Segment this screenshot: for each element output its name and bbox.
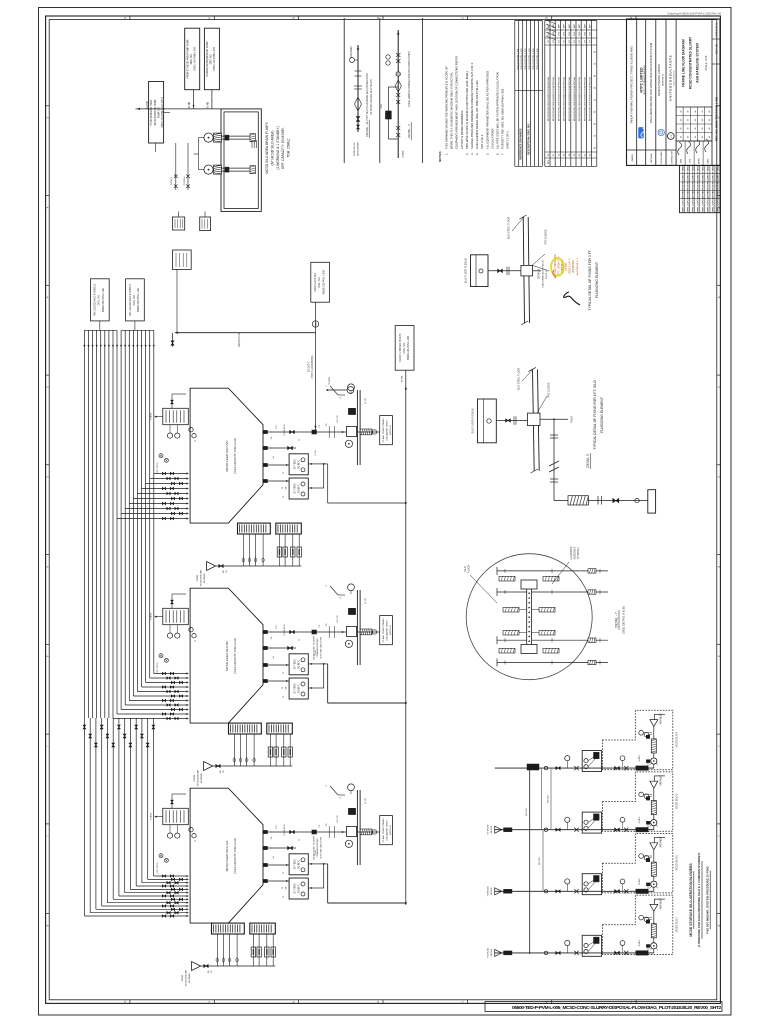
svg-text:C: C: [460, 1001, 464, 1003]
svg-text:BC-150: BC-150: [539, 857, 541, 865]
svg-text:RF 300: RF 300: [365, 598, 367, 604]
svg-text:50: 50: [282, 687, 284, 689]
svg-text:TO MCSD: TO MCSD: [488, 824, 490, 834]
svg-text:SILO FLOOR PLENUM: SILO FLOOR PLENUM: [472, 409, 475, 434]
svg-text:50: 50: [283, 472, 285, 474]
svg-text:FLUIDIZING ELEMENT: FLUIDIZING ELEMENT: [600, 397, 604, 433]
svg-text:FLUIDIZING ELEMENT: FLUIDIZING ELEMENT: [595, 262, 599, 298]
svg-text:BC-150: BC-150: [548, 795, 550, 803]
svg-text:REVISION RECORD ISSUED FOR APP: REVISION RECORD ISSUED FOR APPROVAL: [578, 76, 581, 121]
svg-text:MCSD FEED SILO A/C: MCSD FEED SILO A/C: [225, 440, 229, 472]
svg-text:APP: APP: [557, 23, 560, 28]
svg-text:50 NPS: 50 NPS: [639, 754, 641, 761]
svg-text:AIR INLET: AIR INLET: [660, 836, 663, 848]
svg-text:REVISION RECORD ISSUED FOR APP: REVISION RECORD ISSUED FOR APPROVAL: [563, 76, 566, 121]
svg-text:PUMP. NO.: PUMP. NO.: [158, 106, 160, 118]
svg-text:(SEE DETAIL A & B): (SEE DETAIL A & B): [622, 606, 626, 633]
svg-text:MAIN S-XXX AIR: MAIN S-XXX AIR: [314, 273, 317, 292]
svg-text:BC-200: BC-200: [526, 808, 528, 816]
svg-text:TO ATM: TO ATM: [328, 377, 331, 385]
svg-text:CHD: CHD: [579, 31, 581, 36]
svg-text:80 NB: 80 NB: [207, 101, 209, 108]
svg-text:NEW DELHI: NEW DELHI: [663, 74, 665, 87]
svg-text:50 NB (FF3): 50 NB (FF3): [284, 624, 286, 635]
svg-text:A: A: [629, 17, 633, 19]
svg-text:50 NPS: 50 NPS: [639, 878, 641, 885]
svg-text:80 NB: 80 NB: [189, 101, 191, 108]
svg-text:APPD: APPD: [698, 158, 701, 164]
svg-text:AS-BF-C: AS-BF-C: [297, 884, 300, 894]
svg-text:TANDA THERMAL POWER PROJECT, S: TANDA THERMAL POWER PROJECT, STAGE-II (2…: [630, 46, 634, 124]
svg-text:(SEAL WATER CONNECTION TO DRAI: (SEAL WATER CONNECTION TO DRAIN PUMP): [408, 51, 411, 107]
svg-text:SILO INLET: SILO INLET: [351, 45, 353, 58]
svg-text:PVC SLEEVE: PVC SLEEVE: [545, 229, 548, 244]
svg-text:FROM: FROM: [182, 975, 184, 982]
svg-text:FROM: FROM: [194, 775, 196, 782]
svg-text:TO DET-7: TO DET-7: [308, 361, 311, 372]
svg-text:TO MCSD: TO MCSD: [488, 886, 490, 896]
svg-text:MCSD CONC. SLURRY: MCSD CONC. SLURRY: [314, 635, 316, 659]
svg-text:WORK. THIS IS A SCHEMATIC DIAG: WORK. THIS IS A SCHEMATIC DIAGRAM ONLY, …: [450, 71, 454, 149]
svg-text:APP: APP: [578, 23, 581, 28]
svg-text:PIPE WISE SCOPE IS MARKED (FOR: PIPE WISE SCOPE IS MARKED (FOR NTPC AND …: [465, 70, 469, 149]
svg-text:TO ATM: TO ATM: [150, 813, 153, 821]
svg-text:50 NB (FF3): 50 NB (FF3): [284, 824, 286, 835]
svg-text:DETAIL - 11: DETAIL - 11: [365, 121, 369, 136]
svg-text:MCSD SILO-2: MCSD SILO-2: [675, 855, 678, 871]
svg-text:REV. 00: REV. 00: [715, 44, 719, 54]
svg-text:DRG. NO.: DRG. NO.: [318, 277, 321, 288]
svg-text:APP: APP: [573, 23, 576, 28]
svg-text:E: E: [292, 1000, 296, 1002]
svg-text:DESEIN PRIVATE LIMITED: DESEIN PRIVATE LIMITED: [657, 64, 661, 96]
svg-text:A0: A0: [687, 136, 690, 138]
svg-text:DRG. NO. 05600-TED-P-PVM-L-00: DRG. NO. 05600-TED-P-PVM-L-005: [715, 96, 719, 141]
svg-text:C: C: [460, 17, 464, 19]
svg-text:AIR INLET: AIR INLET: [660, 897, 663, 909]
svg-text:MCSD SILO-3: MCSD SILO-3: [675, 793, 678, 809]
svg-text:(NOTE-2): (NOTE-2): [390, 825, 392, 835]
svg-text:5.: 5.: [485, 153, 489, 155]
svg-text:(TYP. 3 PTS.): (TYP. 3 PTS.): [157, 662, 159, 674]
svg-text:(TYP. 3 PTS.): (TYP. 3 PTS.): [157, 462, 159, 474]
svg-text:DETAIL 3: DETAIL 3: [586, 454, 590, 468]
svg-text:A0: A0: [687, 110, 690, 112]
svg-text:EFF. CAPACITY: 80 M3/HR.: EFF. CAPACITY: 80 M3/HR.: [281, 127, 285, 168]
svg-text:(TYP. 3 LOCATIONS): (TYP. 3 LOCATIONS): [311, 355, 314, 378]
svg-text:DRG. NO.: DRG. NO.: [191, 53, 193, 64]
svg-text:SCALE : NTS: SCALE : NTS: [705, 55, 708, 70]
svg-text:(1 WORKING FOR EACH WORKING SI: (1 WORKING FOR EACH WORKING SILO & 1 COM…: [697, 853, 701, 948]
svg-text:APP: APP: [583, 23, 586, 28]
svg-text:D: D: [376, 1001, 380, 1003]
svg-text:UNLOADING SPOUT: UNLOADING SPOUT: [386, 419, 389, 441]
svg-text:FOR DET-7 REF. DRG. NO. 0560-1: FOR DET-7 REF. DRG. NO. 0560-103-PVM-L-0…: [501, 88, 505, 149]
svg-text:TRANSFER PUMP: TRANSFER PUMP: [316, 838, 319, 857]
svg-text:TO ASH CONDITIONER /: TO ASH CONDITIONER /: [382, 417, 385, 443]
svg-text:REVISION RECORD ISSUED FOR APP: REVISION RECORD ISSUED FOR APPROVAL: [552, 76, 555, 121]
svg-text:UNLOADING SPOUT: UNLOADING SPOUT: [386, 819, 389, 841]
svg-text:CHD: CHD: [690, 158, 692, 163]
svg-text:ALL EQUIPMENT PARAMETER SHALL: ALL EQUIPMENT PARAMETER SHALL BE AS PER …: [485, 71, 489, 149]
svg-text:DISTRIBUTION RECORD OF DRGS: DISTRIBUTION RECORD OF DRGS: [713, 164, 715, 199]
svg-text:BLOWER: BLOWER: [189, 973, 191, 983]
svg-text:A0: A0: [708, 110, 711, 112]
svg-text:(A GOVT. OF INDIA ENTERPRISE): (A GOVT. OF INDIA ENTERPRISE): [643, 65, 646, 95]
svg-text:UNLOADING SPOUT: UNLOADING SPOUT: [386, 619, 389, 641]
svg-text:P&I LEGEND AND SYMBOLS: P&I LEGEND AND SYMBOLS: [129, 283, 132, 316]
svg-text:KGV 300: KGV 300: [337, 415, 339, 422]
svg-text:FLUIDIZING AIR: FLUIDIZING AIR: [196, 769, 199, 786]
svg-text:7.: 7.: [501, 153, 505, 155]
svg-text:A0: A0: [701, 127, 704, 129]
svg-text:25 NB: 25 NB: [315, 450, 317, 456]
svg-text:A0: A0: [679, 136, 682, 138]
svg-text:SHEET 2 OF 2.: SHEET 2 OF 2.: [506, 130, 510, 149]
svg-text:(SILO CAPACITY: 1500 Cu.M): (SILO CAPACITY: 1500 Cu.M): [233, 438, 237, 473]
svg-text:0560-103-PVM-L-006: 0560-103-PVM-L-006: [537, 48, 539, 70]
svg-text:BHEL-UCPL: BHEL-UCPL: [718, 199, 720, 212]
svg-text:0560-103-PVM-L-004: 0560-103-PVM-L-004: [529, 48, 531, 70]
svg-text:0560-103-PVM-L-001: 0560-103-PVM-L-001: [517, 48, 519, 70]
svg-text:TDH: 25MLC: TDH: 25MLC: [287, 138, 291, 158]
svg-text:TO ATM: TO ATM: [150, 613, 153, 621]
svg-text:ALL PIPE SIZES WILL BE AS PER: ALL PIPE SIZES WILL BE AS PER APPROVED C…: [496, 71, 500, 149]
svg-text:(1 WORKING & 1 STANDBY): (1 WORKING & 1 STANDBY): [276, 126, 280, 169]
svg-text:05600-103-PVM-L-004: 05600-103-PVM-L-004: [407, 335, 410, 360]
svg-text:TO HCSD MIXING TANK /: TO HCSD MIXING TANK /: [150, 98, 153, 125]
svg-text:BLOWER: BLOWER: [201, 773, 203, 783]
svg-text:05600-103-PVM-L-003 SHT 2: 05600-103-PVM-L-003 SHT 2: [162, 96, 164, 127]
svg-text:TO MCSD: TO MCSD: [488, 947, 490, 957]
svg-text:150: 150: [271, 837, 273, 840]
svg-text:PLUG: PLUG: [572, 416, 574, 422]
svg-text:BHEL-UCPL: BHEL-UCPL: [703, 199, 705, 212]
svg-text:4.: 4.: [475, 153, 479, 155]
svg-text:CONSUMED AS NOTED IN: CONSUMED AS NOTED IN: [542, 260, 545, 288]
svg-text:G: G: [123, 1001, 127, 1003]
svg-text:AS-BF-C: AS-BF-C: [297, 484, 300, 494]
svg-text:TO ASH CONDITIONER /: TO ASH CONDITIONER /: [382, 617, 385, 643]
svg-text:MCSD SILO-4: MCSD SILO-4: [675, 731, 678, 747]
svg-text:80 NB: 80 NB: [402, 375, 404, 382]
svg-text:REV: REV: [548, 159, 550, 164]
svg-text:SILO FLOOR PLENUM: SILO FLOOR PLENUM: [465, 258, 468, 283]
svg-text:P&I LEGEND AND SYMBOLS: P&I LEGEND AND SYMBOLS: [94, 283, 97, 316]
svg-text:CHD: CHD: [564, 31, 566, 36]
svg-text:THIS DRAWING SHOWS THE WORKING: THIS DRAWING SHOWS THE WORKING PRINCIPLE…: [445, 66, 449, 149]
svg-text:FROM FL WATER PUMPS: FROM FL WATER PUMPS: [399, 333, 402, 362]
svg-text:50 NPS: 50 NPS: [639, 816, 641, 823]
svg-text:AHP/TANDA ST-II: AHP/TANDA ST-II: [576, 257, 579, 275]
svg-text:05600-103-PVM-L-004: 05600-103-PVM-L-004: [214, 47, 216, 71]
svg-text:2.: 2.: [465, 153, 469, 155]
svg-text:APP: APP: [568, 23, 571, 28]
svg-text:150: 150: [271, 637, 273, 640]
svg-text:CCCW-4: CCCW-4: [184, 176, 186, 185]
svg-text:OVERFLOW FROM MCSD PUMP: OVERFLOW FROM MCSD PUMP: [207, 41, 209, 77]
svg-text:SILO STEEL FLOOR: SILO STEEL FLOOR: [518, 367, 521, 390]
svg-text:MCSD CONC. SLURRY: MCSD CONC. SLURRY: [314, 835, 316, 859]
svg-text:3.: 3.: [470, 153, 474, 155]
svg-text:CHD: CHD: [548, 31, 550, 36]
svg-text:RF 300: RF 300: [365, 798, 367, 804]
svg-text:A0: A0: [701, 119, 704, 121]
svg-text:FROM FLUID.: FROM FLUID.: [354, 142, 356, 156]
svg-text:NTPC LIMITED: NTPC LIMITED: [640, 67, 644, 93]
svg-text:REVISION RECORD ISSUED FOR APP: REVISION RECORD ISSUED FOR APPROVAL: [589, 76, 592, 121]
svg-text:25: 25: [299, 839, 301, 841]
svg-text:MCSD FEED SILO A/A: MCSD FEED SILO A/A: [225, 841, 229, 872]
svg-text:AIR INLET: AIR INLET: [660, 774, 663, 786]
svg-text:50: 50: [282, 887, 284, 889]
svg-text:DESCRIPTION / DRG. NO.: DESCRIPTION / DRG. NO.: [526, 123, 530, 155]
svg-text:LAYOUT & PIPING DRAWINGS.: LAYOUT & PIPING DRAWINGS.: [460, 110, 464, 149]
svg-text:REVISION RECORD ISSUED FOR APP: REVISION RECORD ISSUED FOR APPROVAL: [568, 76, 571, 121]
svg-text:APP: APP: [547, 23, 550, 28]
svg-text:AIR INLET: AIR INLET: [660, 713, 663, 725]
svg-text:BHEL-UCPL: BHEL-UCPL: [708, 199, 710, 212]
svg-text:CONTRACTOR: CONTRACTOR: [670, 150, 673, 165]
svg-text:SHT 2 OF 2.: SHT 2 OF 2.: [480, 134, 484, 149]
svg-text:(TYP. SILO FLUIDIZING AIR CONN: (TYP. SILO FLUIDIZING AIR CONNECTION: [366, 73, 369, 120]
svg-text:G: G: [123, 17, 127, 19]
svg-text:30-T-BOX: 30-T-BOX: [294, 459, 296, 470]
svg-text:MCSD STORAGE SILO-AERATION BLO: MCSD STORAGE SILO-AERATION BLOWERS: [689, 863, 693, 937]
svg-text:REVISION RECORD ISSUED FOR APP: REVISION RECORD ISSUED FOR APPROVAL: [557, 76, 560, 121]
svg-text:(TYPICAL): (TYPICAL): [577, 547, 580, 559]
svg-text:DRAIN: DRAIN: [402, 150, 405, 157]
svg-text:30-T-BOX: 30-T-BOX: [294, 659, 296, 670]
svg-text:UC: UC: [671, 134, 673, 138]
svg-text:05600-103-PVM-L-003: 05600-103-PVM-L-003: [323, 269, 326, 294]
svg-text:0560-103-PVM-L-002: 0560-103-PVM-L-002: [521, 48, 523, 70]
svg-text:30-T-BOX: 30-T-BOX: [294, 883, 296, 894]
svg-text:TYPICAL DETAIL OF FIXING FOR 3: TYPICAL DETAIL OF FIXING FOR 3 FT.: [588, 249, 592, 310]
svg-text:30-T-BOX: 30-T-BOX: [294, 683, 296, 694]
svg-text:TRANSFER PUMP: TRANSFER PUMP: [316, 638, 319, 657]
svg-text:150: 150: [271, 437, 273, 440]
svg-text:APPROVED: APPROVED: [572, 260, 575, 273]
svg-text:A0: A0: [694, 136, 697, 138]
svg-text:A0: A0: [701, 110, 704, 112]
svg-text:CHD: CHD: [584, 31, 586, 36]
svg-text:CALCULATIONS.: CALCULATIONS.: [490, 128, 494, 149]
svg-text:PACKAGE: PACKAGE: [650, 153, 653, 163]
svg-text:DISTRIBUTION RECORD OF DRGS: DISTRIBUTION RECORD OF DRGS: [703, 164, 705, 199]
svg-text:A0: A0: [679, 110, 682, 112]
svg-text:SUCTION LINE (TYP.): SUCTION LINE (TYP.): [320, 836, 322, 858]
svg-text:REVISION RECORD ISSUED FOR APP: REVISION RECORD ISSUED FOR APPROVAL: [583, 76, 586, 121]
svg-text:50: 50: [283, 672, 285, 674]
svg-text:TYPICAL DETAIL OF FIXING FOR 4: TYPICAL DETAIL OF FIXING FOR 4 FT. SILO: [593, 380, 597, 450]
svg-text:A0: A0: [694, 127, 697, 129]
svg-text:E N G I N E E R S: E N G I N E E R S: [674, 70, 676, 85]
svg-text:AS-BF-C: AS-BF-C: [297, 684, 300, 694]
svg-text:FROM: FROM: [197, 575, 199, 582]
svg-text:MCSD DISPOSAL SUMP: MCSD DISPOSAL SUMP: [154, 99, 157, 126]
svg-text:DISTRIBUTION RECORD OF DRGS: DISTRIBUTION RECORD OF DRGS: [708, 164, 710, 199]
svg-text:05600-103-PVM-L-004: 05600-103-PVM-L-004: [195, 47, 197, 71]
svg-text:DETAIL 4: DETAIL 4: [538, 268, 541, 279]
svg-text:KGV 300: KGV 300: [337, 815, 339, 822]
svg-text:AS-BF-C: AS-BF-C: [297, 459, 300, 469]
svg-text:25: 25: [299, 439, 301, 441]
svg-text:FLUIDIZING AIR: FLUIDIZING AIR: [199, 569, 202, 586]
svg-text:DATE: DATE: [707, 158, 710, 164]
svg-text:DISTRIBUTION RECORD OF DRGS: DISTRIBUTION RECORD OF DRGS: [692, 164, 694, 199]
svg-text:CODE 2 CAT II: CODE 2 CAT II: [569, 258, 572, 274]
svg-text:A0: A0: [708, 119, 711, 121]
svg-text:25: 25: [299, 639, 301, 641]
svg-text:A0: A0: [687, 119, 690, 121]
svg-text:SUCTION LINE (TYP.): SUCTION LINE (TYP.): [320, 636, 322, 658]
svg-text:CHD: CHD: [569, 31, 571, 36]
svg-text:30-T-BOX: 30-T-BOX: [294, 483, 296, 494]
svg-text:ASH HANDLING AND ASH WATER REC: ASH HANDLING AND ASH WATER RECIRCULATION…: [649, 42, 653, 123]
svg-text:E: E: [292, 17, 296, 19]
svg-text:APP: APP: [589, 23, 592, 28]
svg-text:50: 50: [283, 496, 285, 498]
svg-text:05600-103-PVM-L-001: 05600-103-PVM-L-001: [137, 287, 140, 312]
svg-text:DETAIL - 2: DETAIL - 2: [407, 124, 411, 138]
svg-text:DISTRIBUTION RECORD OF DRGS: DISTRIBUTION RECORD OF DRGS: [687, 164, 689, 199]
svg-text:AIR BLOWER: AIR BLOWER: [356, 142, 359, 156]
svg-text:50: 50: [283, 872, 285, 874]
svg-text:TO ASH CONDITIONER /: TO ASH CONDITIONER /: [382, 817, 385, 843]
svg-text:02 BST: 02 BST: [565, 262, 568, 271]
svg-text:DRG. NO.: DRG. NO.: [98, 294, 101, 305]
svg-text:REVISION RECORD ISSUED FOR APP: REVISION RECORD ISSUED FOR APPROVAL: [547, 76, 550, 121]
svg-text:A0: A0: [708, 136, 711, 138]
svg-text:SILO#1: SILO#1: [491, 948, 493, 956]
svg-text:U N I T E D C O N S U L T A: U N I T E D C O N S U L T A N T S: [668, 55, 672, 100]
svg-text:MCSD CONCENTRATED SLURRY: MCSD CONCENTRATED SLURRY: [689, 36, 693, 89]
svg-text:REFERENCE DRAWINGS: REFERENCE DRAWINGS: [519, 128, 523, 159]
svg-text:A0: A0: [687, 127, 690, 129]
svg-text:(AT MCSD SILO AREA): (AT MCSD SILO AREA): [270, 131, 274, 166]
svg-text:TO ATM: TO ATM: [150, 413, 153, 421]
svg-text:CONSULTANT: CONSULTANT: [660, 151, 663, 165]
svg-text:CHD: CHD: [590, 31, 592, 36]
svg-text:MCSD FEED SILO B/I: MCSD FEED SILO B/I: [225, 641, 229, 671]
svg-text:BHEL-UCPL: BHEL-UCPL: [692, 199, 694, 212]
svg-text:05600-103-PVM-L-001: 05600-103-PVM-L-001: [102, 287, 105, 312]
svg-text:DISTRIBUTION RECORD OF DRGS: DISTRIBUTION RECORD OF DRGS: [698, 164, 700, 199]
svg-text:(NOTE-2): (NOTE-2): [390, 425, 392, 435]
svg-text:BHEL-UCPL: BHEL-UCPL: [698, 199, 700, 212]
svg-text:0560-103-PVM-L-003: 0560-103-PVM-L-003: [525, 48, 527, 70]
svg-text:SLUDGE PIPED AND DRAWING IN CO: SLUDGE PIPED AND DRAWING IN CONJUNCTION …: [470, 62, 474, 149]
svg-text:FOR LEGENDS REFER DRG. NO. 056: FOR LEGENDS REFER DRG. NO. 0560-103-PVM-…: [475, 80, 479, 149]
svg-text:50 NB (FF3): 50 NB (FF3): [284, 424, 286, 435]
svg-text:A0: A0: [679, 119, 682, 121]
svg-text:DISTRIBUTION RECORD OF DRGS: DISTRIBUTION RECORD OF DRGS: [718, 164, 720, 199]
svg-text:DRG. NO.: DRG. NO.: [133, 294, 136, 305]
svg-text:AS-BF-C: AS-BF-C: [297, 859, 300, 869]
svg-text:0560-103-PVM-L-005: 0560-103-PVM-L-005: [533, 48, 535, 70]
svg-text:SILO STEEL FLOOR: SILO STEEL FLOOR: [508, 216, 511, 239]
svg-text:SILO#3: SILO#3: [491, 825, 493, 833]
svg-text:DRN: DRN: [681, 158, 683, 163]
svg-text:B: B: [545, 17, 549, 19]
svg-text:OWNER: OWNER: [632, 154, 634, 162]
svg-text:A0: A0: [708, 127, 711, 129]
svg-text:05600-TED-P-PVM-L-005_MCSD-CON: 05600-TED-P-PVM-L-005_MCSD-CONC-SLURRY-D…: [512, 1005, 721, 1011]
svg-text:(TYP. 3 PTS.): (TYP. 3 PTS.): [157, 862, 159, 874]
svg-text:FRAME LINE FLOW DIAGRAM: FRAME LINE FLOW DIAGRAM: [682, 39, 686, 87]
svg-text:MCSD SILO-1: MCSD SILO-1: [675, 916, 678, 932]
svg-text:CHD: CHD: [553, 31, 555, 36]
svg-text:FLOOR: FLOOR: [467, 565, 470, 574]
svg-text:AS-BF-C: AS-BF-C: [297, 659, 300, 669]
svg-text:PRV: PRV: [381, 103, 383, 108]
svg-text:(SILO CAPACITY: 1500 Cu.M): (SILO CAPACITY: 1500 Cu.M): [233, 638, 237, 673]
svg-text:A0: A0: [694, 119, 697, 121]
svg-text:50 NPS: 50 NPS: [639, 939, 641, 946]
svg-text:FROM ET MCSD AREA PUMP SUMP: FROM ET MCSD AREA PUMP SUMP: [186, 39, 189, 78]
svg-text:CHD: CHD: [574, 31, 576, 36]
svg-text:BHEL-UCPL: BHEL-UCPL: [713, 199, 715, 212]
svg-text:AT MCSD FEEDER SILO INLET): AT MCSD FEEDER SILO INLET): [370, 79, 373, 114]
svg-text:A0: A0: [694, 110, 697, 112]
svg-text:50: 50: [282, 487, 284, 489]
svg-text:BLOWER: BLOWER: [204, 573, 206, 583]
svg-text:(SILO CAPACITY: 1500 Cu.M): (SILO CAPACITY: 1500 Cu.M): [233, 838, 237, 873]
svg-text:50: 50: [283, 896, 285, 898]
svg-text:REVISION RECORD ISSUED FOR APP: REVISION RECORD ISSUED FOR APPROVAL: [573, 76, 576, 121]
svg-text:30-T-BOX: 30-T-BOX: [294, 859, 296, 870]
svg-text:6.: 6.: [496, 153, 500, 155]
svg-text:CHD: CHD: [558, 31, 560, 36]
svg-text:BHEL-UCPL: BHEL-UCPL: [682, 199, 684, 212]
svg-text:DISTRIBUTION RECORD OF DRGS: DISTRIBUTION RECORD OF DRGS: [682, 164, 684, 199]
svg-text:KGV 300: KGV 300: [337, 615, 339, 622]
svg-text:NOTES:: NOTES:: [438, 151, 442, 162]
svg-text:DRG. NO.: DRG. NO.: [403, 342, 406, 353]
svg-text:APP: APP: [563, 23, 566, 28]
svg-text:(NOTE-2): (NOTE-2): [390, 625, 392, 635]
svg-text:1.: 1.: [445, 153, 449, 155]
svg-text:RF 300: RF 300: [365, 398, 367, 404]
svg-text:BHEL-UCPL: BHEL-UCPL: [687, 199, 689, 212]
svg-text:NCW-4: NCW-4: [171, 177, 173, 185]
svg-text:Drawing # 0560-103-PVM-L-005: Drawing # 0560-103-PVM-L-005 Rev 00: [667, 12, 721, 16]
svg-text:DRG. NO.: DRG. NO.: [211, 53, 213, 64]
svg-text:MCSD SILO AREA DRAIN PUMPS: MCSD SILO AREA DRAIN PUMPS: [265, 121, 269, 173]
svg-text:FAD 500 NM3/HR. SYSTEM PRESSUR: FAD 500 NM3/HR. SYSTEM PRESSURE 10 PSIG: [705, 865, 709, 933]
svg-text:FLUIDIZING AIR: FLUIDIZING AIR: [184, 969, 187, 986]
svg-text:ASH HANDLING SYSTEM: ASH HANDLING SYSTEM: [696, 43, 700, 83]
svg-text:PVC SLEEVE: PVC SLEEVE: [548, 382, 551, 397]
svg-text:SILO#2: SILO#2: [491, 887, 493, 895]
svg-text:150 NB (FF3): 150 NB (FF3): [238, 333, 241, 348]
svg-text:EQUIPMENT ARRANGEMENT AND LOCA: EQUIPMENT ARRANGEMENT AND LOCATION OF CO…: [455, 56, 459, 149]
svg-text:A0: A0: [701, 136, 704, 138]
svg-text:50: 50: [283, 696, 285, 698]
svg-text:DETAIL - 7: DETAIL - 7: [615, 612, 619, 628]
svg-text:APP: APP: [552, 23, 555, 28]
svg-text:SHT 2 OF 2: SHT 2 OF 2: [716, 23, 719, 37]
svg-text:A0: A0: [679, 127, 682, 129]
